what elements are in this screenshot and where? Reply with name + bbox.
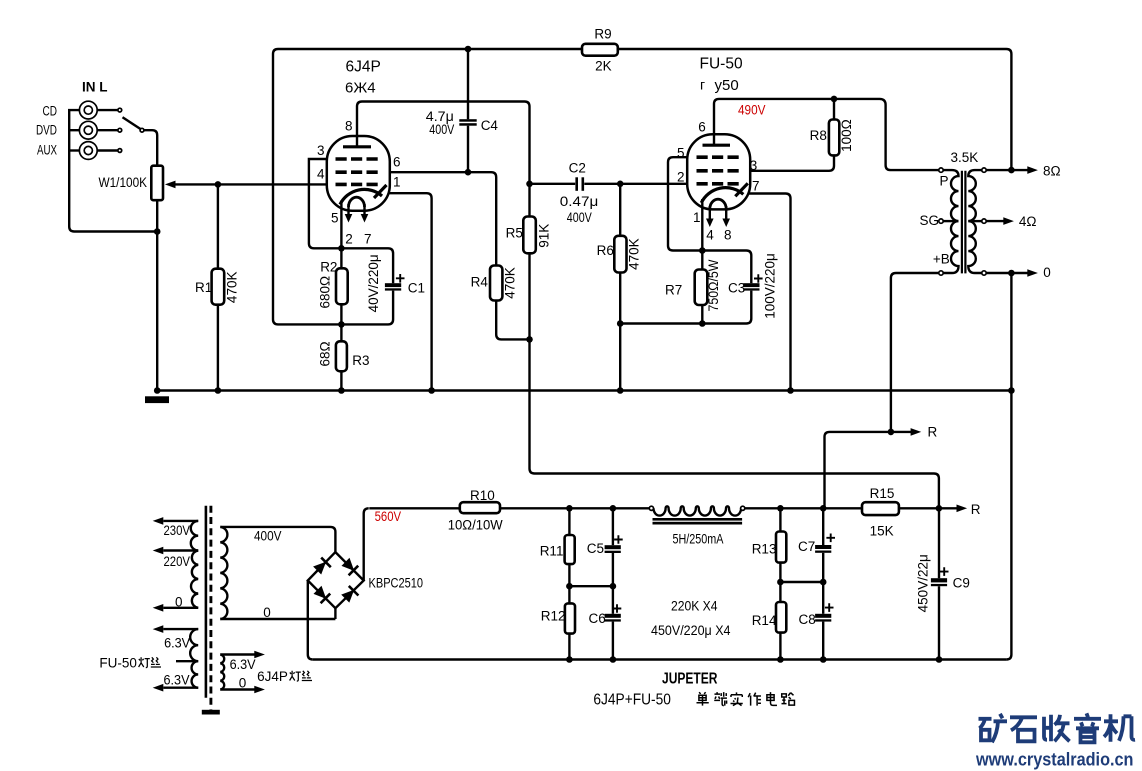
- svg-text:450V/220μ X4: 450V/220μ X4: [651, 623, 731, 638]
- svg-text:4: 4: [706, 228, 714, 243]
- svg-text:DVD: DVD: [36, 123, 57, 138]
- svg-text:6.3V: 6.3V: [230, 657, 256, 672]
- svg-text:3: 3: [317, 143, 325, 158]
- svg-text:6J4P+FU-50: 6J4P+FU-50: [593, 692, 671, 709]
- svg-text:R15: R15: [870, 486, 895, 501]
- svg-text:FU-50: FU-50: [99, 656, 137, 671]
- svg-text:C7: C7: [798, 539, 815, 554]
- svg-text:SG: SG: [920, 213, 940, 228]
- svg-text:450V/22μ: 450V/22μ: [916, 554, 931, 612]
- svg-text:KBPC2510: KBPC2510: [369, 576, 424, 591]
- svg-text:470K: 470K: [627, 238, 642, 270]
- svg-text:R: R: [928, 425, 938, 440]
- svg-text:г: г: [700, 77, 705, 93]
- svg-text:C1: C1: [408, 281, 425, 296]
- svg-text:40V/220μ: 40V/220μ: [366, 254, 381, 312]
- svg-text:0: 0: [1043, 265, 1051, 280]
- svg-text:0: 0: [175, 595, 183, 610]
- svg-text:+B: +B: [933, 252, 950, 267]
- svg-text:C4: C4: [481, 118, 499, 133]
- svg-text:www.crystalradio.cn: www.crystalradio.cn: [975, 749, 1133, 770]
- svg-text:R8: R8: [810, 128, 827, 143]
- svg-text:15K: 15K: [870, 524, 894, 539]
- svg-text:2K: 2K: [595, 59, 612, 74]
- svg-text:1: 1: [693, 210, 701, 225]
- svg-text:490V: 490V: [738, 102, 766, 117]
- svg-text:AUX: AUX: [37, 143, 57, 158]
- svg-text:7: 7: [364, 232, 372, 247]
- svg-text:470K: 470K: [502, 267, 517, 299]
- svg-text:8: 8: [345, 119, 353, 134]
- svg-text:680Ω: 680Ω: [317, 276, 332, 309]
- svg-text:220V: 220V: [164, 554, 191, 569]
- svg-text:R10: R10: [470, 488, 495, 503]
- svg-text:750Ω/5W: 750Ω/5W: [706, 259, 721, 311]
- svg-text:R13: R13: [752, 542, 777, 557]
- svg-text:CD: CD: [43, 104, 58, 119]
- svg-text:R5: R5: [506, 225, 523, 240]
- svg-text:R11: R11: [540, 544, 564, 559]
- svg-text:6: 6: [393, 155, 401, 170]
- svg-text:6J4P: 6J4P: [346, 59, 381, 76]
- svg-text:R1: R1: [195, 280, 212, 295]
- svg-text:R: R: [971, 502, 981, 517]
- svg-text:560V: 560V: [375, 509, 402, 524]
- svg-text:у50: у50: [715, 77, 739, 94]
- svg-text:R4: R4: [471, 274, 489, 289]
- svg-text:470K: 470K: [225, 272, 240, 304]
- svg-text:IN L: IN L: [82, 79, 108, 94]
- svg-text:R14: R14: [752, 613, 777, 628]
- svg-text:5: 5: [677, 145, 685, 160]
- svg-text:C9: C9: [953, 575, 970, 590]
- svg-text:100Ω: 100Ω: [839, 119, 854, 152]
- svg-text:0.47μ: 0.47μ: [560, 194, 599, 209]
- svg-text:W1/100K: W1/100K: [99, 175, 148, 190]
- svg-text:8: 8: [724, 228, 732, 243]
- svg-text:400V: 400V: [429, 122, 454, 137]
- svg-text:FU-50: FU-50: [700, 55, 743, 72]
- svg-text:P: P: [940, 173, 949, 188]
- svg-text:R2: R2: [320, 260, 337, 275]
- svg-text:C3: C3: [728, 281, 745, 296]
- svg-text:68Ω: 68Ω: [317, 341, 332, 366]
- svg-text:6Ж4: 6Ж4: [345, 80, 376, 97]
- svg-text:R9: R9: [594, 26, 611, 41]
- svg-text:7: 7: [752, 179, 760, 194]
- svg-text:10Ω/10W: 10Ω/10W: [448, 518, 503, 533]
- svg-text:100V/220μ: 100V/220μ: [763, 253, 778, 319]
- svg-text:2: 2: [677, 170, 685, 185]
- svg-text:5: 5: [331, 211, 339, 226]
- svg-text:JUPETER: JUPETER: [662, 671, 718, 688]
- svg-text:6J4P: 6J4P: [257, 669, 288, 684]
- svg-text:400V: 400V: [567, 210, 592, 225]
- svg-text:0: 0: [239, 675, 247, 690]
- svg-text:4Ω: 4Ω: [1019, 214, 1037, 229]
- svg-text:230V: 230V: [164, 523, 191, 538]
- svg-text:1: 1: [393, 175, 401, 190]
- svg-text:R6: R6: [597, 243, 614, 258]
- svg-text:91K: 91K: [536, 224, 551, 248]
- svg-text:C6: C6: [589, 611, 606, 626]
- svg-text:4: 4: [317, 166, 325, 181]
- svg-text:C2: C2: [569, 161, 586, 176]
- svg-text:400V: 400V: [254, 528, 282, 543]
- svg-text:C5: C5: [587, 541, 604, 556]
- svg-text:6: 6: [698, 120, 706, 135]
- svg-text:3.5K: 3.5K: [951, 150, 979, 165]
- svg-text:2: 2: [345, 232, 353, 247]
- svg-text:220K X4: 220K X4: [671, 599, 718, 614]
- svg-text:5H/250mA: 5H/250mA: [673, 532, 724, 547]
- svg-text:8Ω: 8Ω: [1043, 163, 1061, 178]
- svg-text:R3: R3: [352, 353, 369, 368]
- svg-text:6.3V: 6.3V: [164, 636, 190, 651]
- svg-text:6.3V: 6.3V: [164, 672, 190, 687]
- svg-text:3: 3: [750, 158, 758, 173]
- svg-text:C8: C8: [799, 612, 816, 627]
- svg-text:R12: R12: [541, 609, 566, 624]
- svg-text:R7: R7: [665, 283, 682, 298]
- svg-text:0: 0: [263, 605, 271, 620]
